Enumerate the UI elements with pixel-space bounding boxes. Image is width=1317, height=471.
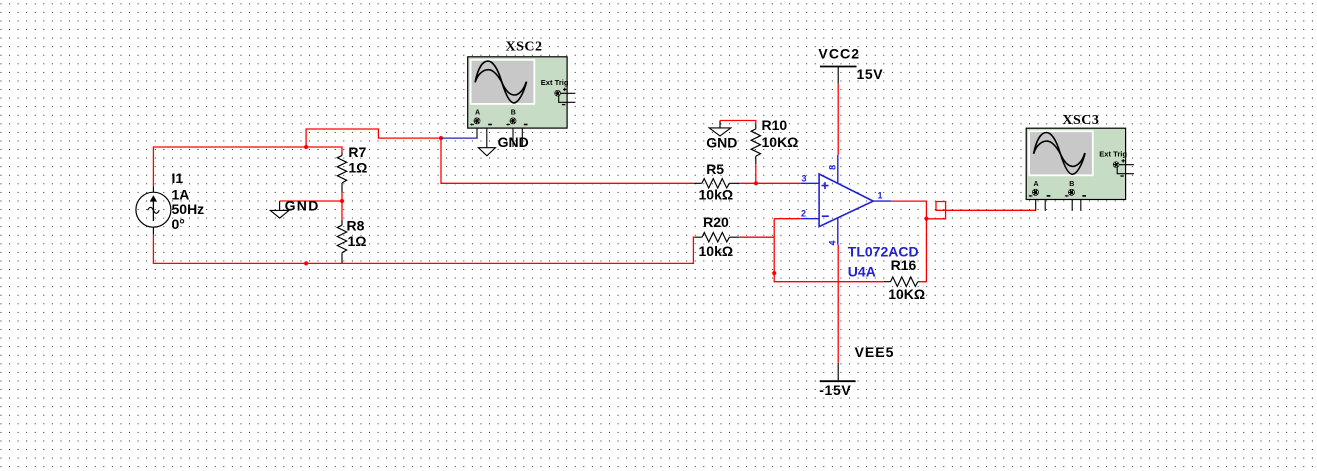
svg-text:VEE5: VEE5 <box>855 344 895 360</box>
svg-text:10KΩ: 10KΩ <box>762 134 799 150</box>
svg-text:XSC3: XSC3 <box>1062 113 1099 128</box>
svg-text:R8: R8 <box>347 218 365 234</box>
svg-text:1: 1 <box>878 190 883 200</box>
svg-text:TL072ACD: TL072ACD <box>848 244 919 260</box>
svg-text:10kΩ: 10kΩ <box>699 243 734 259</box>
svg-text:10kΩ: 10kΩ <box>699 187 734 203</box>
svg-text:R7: R7 <box>348 144 366 160</box>
svg-text:10KΩ: 10KΩ <box>888 286 925 302</box>
svg-text:XSC2: XSC2 <box>506 40 543 55</box>
svg-text:50Hz: 50Hz <box>172 201 205 217</box>
svg-text:2: 2 <box>801 208 806 218</box>
svg-text:GND: GND <box>706 134 737 150</box>
svg-text:GND: GND <box>285 197 320 213</box>
svg-text:U4A: U4A <box>848 264 876 280</box>
svg-text:1Ω: 1Ω <box>348 159 367 175</box>
svg-text:-15V: -15V <box>819 382 851 398</box>
svg-text:4: 4 <box>827 240 837 245</box>
svg-text:R20: R20 <box>703 214 729 230</box>
svg-text:0°: 0° <box>172 216 185 232</box>
svg-text:VCC2: VCC2 <box>818 46 860 62</box>
svg-text:R5: R5 <box>706 161 724 177</box>
svg-text:R10: R10 <box>762 117 788 133</box>
svg-text:GND: GND <box>498 134 529 150</box>
svg-text:8: 8 <box>827 165 837 170</box>
svg-text:1Ω: 1Ω <box>348 233 367 249</box>
svg-text:I1: I1 <box>172 170 184 186</box>
svg-text:3: 3 <box>802 173 807 183</box>
svg-text:15V: 15V <box>857 66 884 82</box>
